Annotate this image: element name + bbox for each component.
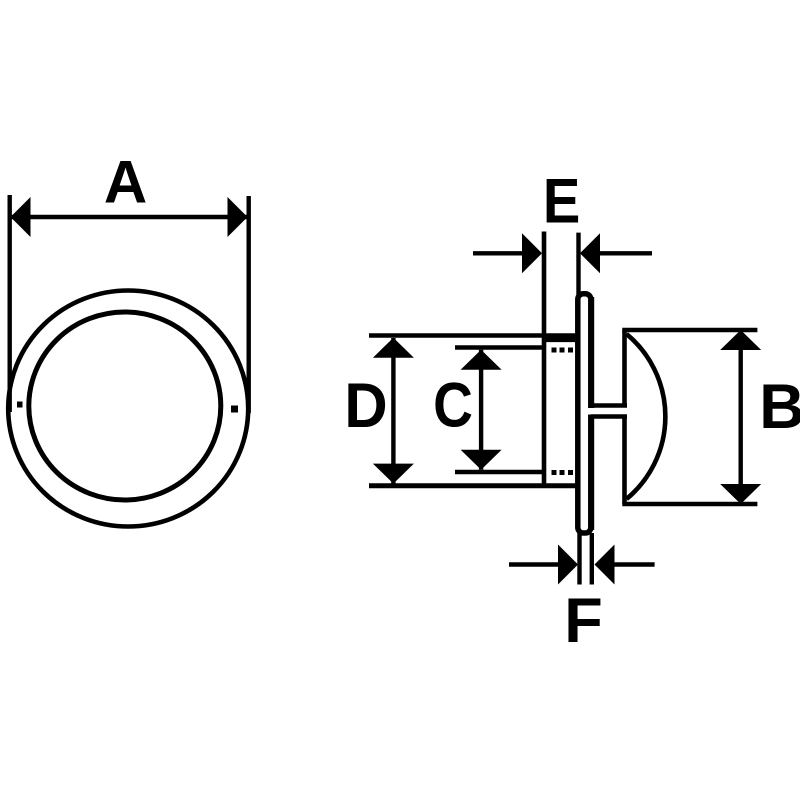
dimension E: left tail line	[473, 251, 523, 255]
dimension E: right arrowhead (points left)	[580, 233, 600, 273]
dimension A: right arrowhead	[228, 197, 248, 237]
dimension E: right extension line (above flange)	[576, 233, 580, 295]
svg-text:C: C	[433, 369, 473, 440]
knob: left face lower segment	[622, 415, 627, 504]
dimension A: left extension line	[7, 195, 11, 412]
svg-text:B: B	[759, 372, 800, 442]
front view: right mark dot	[231, 406, 238, 413]
svg-text:D: D	[344, 371, 387, 442]
flange: right edge thickening line	[590, 297, 594, 530]
dimension F: left extension line (below flange)	[577, 533, 581, 585]
dimension D: dimension line	[391, 338, 395, 484]
dimension F: right tail line	[615, 562, 655, 566]
dimension A: left arrowhead	[11, 197, 31, 237]
dimension A: right extension line	[246, 196, 250, 413]
side view: body bottom line (D bottom extension)	[369, 483, 578, 488]
svg-text:F: F	[564, 586, 602, 656]
flange: right edge stem gap mask	[587, 408, 595, 415]
dimension F: right extension line (below flange)	[590, 533, 594, 585]
dimension B: bottom arrowhead	[720, 484, 761, 504]
front view: left mark dot	[17, 402, 23, 408]
stem: bottom line	[591, 414, 627, 418]
dimension C: top arrowhead	[461, 350, 502, 370]
front view: inner circle	[29, 312, 221, 500]
dimension B: dimension line	[739, 332, 743, 502]
side view: body top line (D top extension)	[369, 333, 578, 338]
stem: top line	[591, 403, 627, 407]
front view: outer ring circle	[8, 291, 248, 527]
knob: dome arc	[627, 334, 666, 499]
dimension A: dimension line	[11, 215, 248, 219]
hidden line dots top row	[552, 348, 557, 353]
dimension C: bottom arrowhead	[461, 450, 502, 470]
side view: body left edge / E left extension line	[542, 232, 547, 487]
hidden line dots bottom row	[552, 470, 557, 475]
knob: left face upper segment	[622, 330, 627, 408]
svg-text:A: A	[104, 149, 147, 216]
knob: bottom line (B bottom extension)	[622, 502, 757, 507]
dimension D: bottom arrowhead	[373, 464, 414, 484]
dimension F: right arrowhead (points left)	[595, 545, 615, 585]
dimension E: right tail line	[600, 251, 652, 255]
knob: top line (B top extension)	[622, 328, 757, 333]
dimension D: top arrowhead	[373, 338, 414, 358]
flange: rounded rectangle outline	[578, 294, 591, 533]
dimension F: left arrowhead (points right)	[558, 545, 578, 585]
svg-text:E: E	[543, 166, 580, 237]
side view: body top inner wall line	[544, 337, 578, 342]
dimension C: bottom extension line	[455, 470, 544, 474]
dimension C: dimension line	[479, 350, 483, 470]
dimension B: top arrowhead	[720, 330, 761, 350]
dimension E: left arrowhead (points right)	[522, 233, 542, 273]
dimension F: left tail line	[509, 562, 558, 566]
dimension C: top extension line	[455, 345, 544, 349]
